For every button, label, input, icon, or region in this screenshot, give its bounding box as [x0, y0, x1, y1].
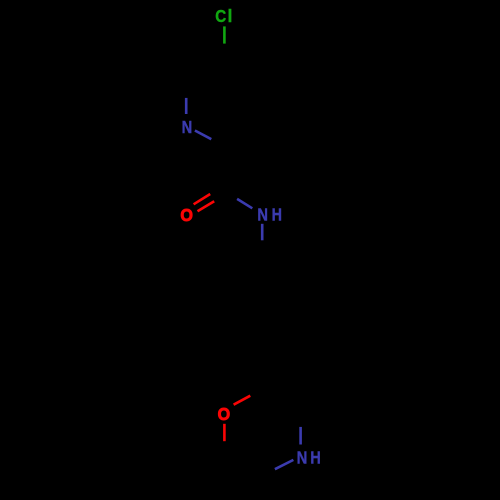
bond O-C6 morpholine (half near O): [223, 424, 226, 441]
chlorine label Cl: [215, 6, 232, 26]
bond N-C5 morpholine (half near NH): [275, 460, 294, 469]
svg-text:O: O: [180, 205, 193, 225]
svg-text:N: N: [182, 118, 193, 137]
bond N-C3 morpholine (half near NH): [299, 427, 302, 445]
bond C(=O)-N (half near NH): [237, 199, 252, 208]
bond N-C2 (half near N): [195, 131, 211, 140]
svg-text:N: N: [257, 205, 268, 224]
svg-text:H: H: [272, 206, 282, 225]
svg-text:O: O: [218, 404, 231, 424]
svg-text:C: C: [215, 7, 226, 26]
morpholine NH label: [297, 448, 321, 467]
C=O double bond line 2 (O half): [198, 201, 215, 211]
svg-text:N: N: [297, 448, 308, 467]
bond C5-Cl (half near Cl): [223, 26, 226, 43]
C=O double bond line 1 (O half): [194, 194, 211, 204]
amide NH label: [257, 205, 282, 225]
bond N-C6 (half near N): [185, 98, 188, 114]
bond O-C2 morpholine (half near O): [234, 396, 251, 405]
bond N-CH2 (half near NH): [261, 224, 264, 241]
svg-text:l: l: [227, 6, 232, 26]
svg-text:H: H: [310, 449, 320, 468]
